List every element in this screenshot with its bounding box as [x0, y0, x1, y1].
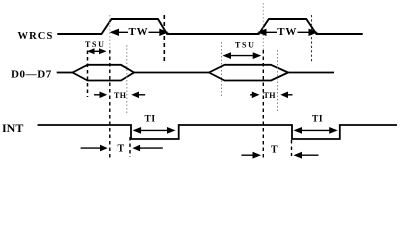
- svg-text:TSU: TSU: [235, 41, 256, 50]
- dimension TW pulse 2: [257, 26, 318, 38]
- WRCS waveform wire: [58, 19, 362, 34]
- dimension T 2: [241, 145, 318, 159]
- data valid hexagon 1: [73, 65, 135, 81]
- dotted line hold-end 2: [277, 50, 279, 112]
- svg-text:TI: TI: [145, 114, 156, 124]
- svg-text:D0—D7: D0—D7: [11, 68, 52, 80]
- dotted line data-valid start 2: [221, 42, 223, 96]
- dimension TI 1 double arrow: [133, 127, 176, 134]
- dashed reference line at WRCS rising edge 2 (node): [262, 3, 264, 50]
- dashed reference line at WRCS falling edge 2 (node): [311, 15, 313, 63]
- data valid hexagon 2: [209, 65, 288, 81]
- dimension TSU 1 double arrow: [87, 48, 107, 54]
- dotted line hold-end 1: [126, 45, 128, 113]
- D0-D7 bus wire right: [288, 72, 334, 74]
- dimension T 1: [81, 143, 163, 154]
- D0-D7 bus wire left: [57, 72, 73, 74]
- D0-D7 bus wire middle: [134, 72, 209, 74]
- dashed reference line at WRCS falling edge 1 (node): [163, 15, 165, 64]
- dashed line data-valid start 1: [87, 51, 89, 98]
- dimension TSU 2 double arrow: [223, 52, 262, 59]
- svg-text:TSU: TSU: [85, 40, 106, 49]
- svg-text:WRCS: WRCS: [18, 31, 54, 42]
- dashed line at INT fall 2 (node): [291, 140, 293, 156]
- dashed line at INT fall 1 (node): [129, 137, 131, 157]
- dimension TH 1: [94, 91, 145, 100]
- dimension TW pulse 1: [110, 26, 169, 38]
- dimension TI 2 double arrow: [294, 127, 338, 134]
- svg-text:T: T: [271, 145, 278, 156]
- svg-text:TH: TH: [264, 91, 277, 100]
- svg-text:TW: TW: [277, 26, 297, 38]
- dashed reference line at WRCS rising edge 1 (node): [109, 15, 111, 50]
- svg-text:TW: TW: [129, 26, 149, 38]
- INT waveform wire: [38, 125, 398, 139]
- dimension TH 2: [250, 91, 293, 100]
- svg-text:INT: INT: [2, 121, 23, 135]
- svg-text:TH: TH: [114, 91, 127, 100]
- svg-text:T: T: [118, 143, 125, 154]
- svg-text:TI: TI: [312, 114, 323, 124]
